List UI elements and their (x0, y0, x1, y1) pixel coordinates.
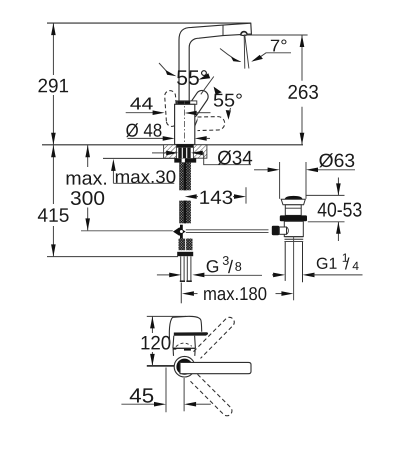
threaded shank through deck (178, 148, 190, 159)
max180 left extension line (180, 283, 182, 304)
label 55deg lower (214, 94, 242, 107)
dimension diam 48 (128, 137, 164, 139)
upright lever outline (169, 316, 201, 343)
dashed lever down-right (191, 374, 232, 415)
body sides (172, 336, 175, 349)
braided shank upper segment (179, 163, 191, 191)
horizontal lever bar (top view) (180, 362, 251, 373)
upright lever bar (174, 332, 208, 335)
tailpipe walls (284, 242, 286, 281)
dimension diam 34 (152, 152, 167, 154)
drain body (284, 221, 303, 236)
handle lever solid (right, 35deg) (186, 90, 208, 117)
handle lever dashed left (165, 91, 178, 127)
dimension max.30 (113, 182, 174, 184)
pivot outer circle (174, 356, 195, 377)
label 7deg (271, 40, 287, 52)
locknut (174, 158, 196, 162)
deck bottom line (103, 157, 177, 159)
crimp band (177, 252, 193, 256)
handle lever dashed horizontal (198, 117, 225, 131)
drain centerline (293, 237, 295, 301)
deck top line (42, 144, 303, 146)
dimension 45 (165, 368, 167, 413)
dimension line 263 (301, 35, 303, 81)
dimension G3/8 (157, 274, 171, 276)
braided shank lower segment (179, 201, 191, 224)
dimension line max.300 (87, 145, 89, 230)
label 263 (288, 85, 318, 99)
lever tail (195, 117, 199, 126)
top extension line (47, 22, 251, 24)
spout head divider (222, 25, 224, 35)
faucet body (175, 104, 195, 144)
hose-end extension line (415 bottom) (47, 256, 178, 258)
top extension line (147, 315, 186, 317)
diam63 dimension (254, 169, 268, 171)
bottom extension line / rod stub (147, 365, 175, 367)
55deg upper left leader (159, 63, 167, 71)
supply hoses (181, 256, 191, 281)
dimension 40-53 (306, 194, 345, 196)
hose connectors below shank (179, 239, 186, 251)
label 415 (38, 208, 69, 222)
dimension G1 1/4 (272, 274, 274, 276)
rod knob (272, 226, 280, 236)
dimension 143 (185, 194, 197, 199)
spout (179, 23, 251, 101)
body base black seal (175, 144, 195, 148)
cartridge cap (177, 101, 197, 104)
263 extension line from aerator (244, 34, 308, 36)
dimension max.180 (182, 291, 194, 296)
7deg leader arcs (220, 49, 236, 61)
hose end caps (180, 280, 185, 282)
deck section hatch left (164, 145, 177, 158)
label 55deg upper (177, 70, 207, 85)
drain coupling lines (285, 236, 304, 238)
dashed lever up-right (194, 317, 235, 358)
aerator (240, 31, 248, 36)
7deg spray lines (243, 35, 246, 68)
drain seal ring (280, 215, 307, 221)
drain flange (281, 199, 305, 205)
rod joint at faucet (173, 225, 186, 239)
deck section hatch right (193, 145, 207, 158)
dimension 120 (151, 316, 153, 333)
body centerline (184, 98, 186, 146)
dimension 44 (126, 112, 154, 114)
label max. 300 (67, 174, 106, 184)
pop-up rod left (max300 extension) (81, 230, 173, 232)
drain neck (285, 205, 301, 216)
label 291 (38, 79, 68, 93)
55deg upper right leader (199, 73, 211, 79)
pivot black ring (178, 360, 191, 373)
dimension line 291/415 (52, 23, 54, 256)
pop-up rod double line right (186, 229, 269, 231)
55deg lower leader arrow (214, 87, 222, 95)
diam63 extension lines (279, 162, 281, 199)
hidden dome dashed arc (176, 343, 192, 346)
drain plug black top (285, 196, 303, 199)
